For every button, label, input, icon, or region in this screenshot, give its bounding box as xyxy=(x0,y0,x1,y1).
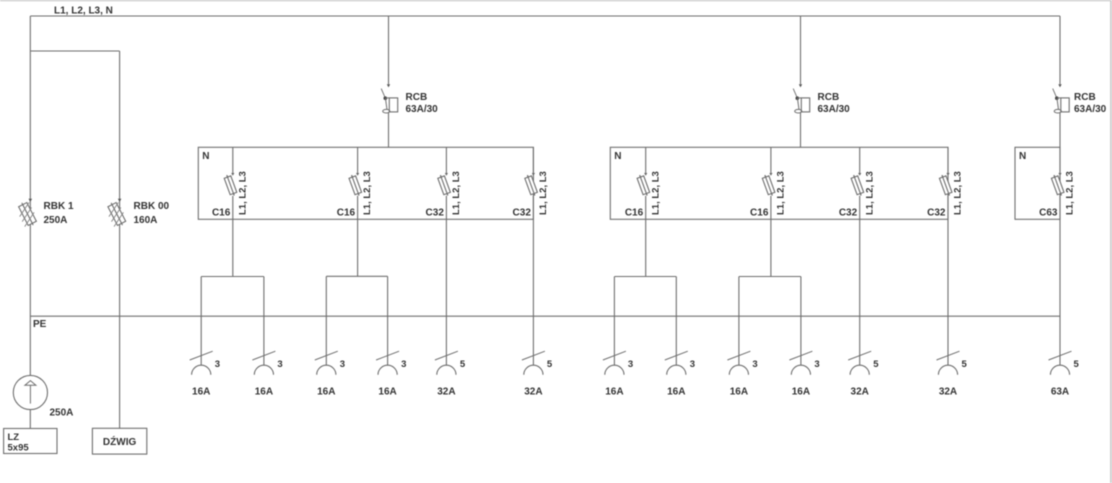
socket outlet X6 32A (5-wire) xyxy=(522,351,553,397)
socket outlet X5 32A (5-wire) xyxy=(435,351,466,397)
RCD breaker RCB2 xyxy=(793,84,810,113)
svg-text:3: 3 xyxy=(814,359,819,370)
svg-text:L1, L2, L3: L1, L2, L3 xyxy=(864,171,875,215)
label RCB2 63A/30 xyxy=(818,92,851,115)
svg-text:L1, L2, L3: L1, L2, L3 xyxy=(362,171,373,215)
label C32 #8 xyxy=(927,208,946,219)
distribution box 1 (N) xyxy=(198,147,533,219)
breaker C16 #5 xyxy=(636,173,650,197)
svg-text:63A: 63A xyxy=(1051,387,1069,398)
svg-text:3: 3 xyxy=(628,359,633,370)
svg-text:RCB: RCB xyxy=(1074,92,1096,103)
label C16 #2 xyxy=(337,208,356,219)
wire top bus L1,L2,L3,N xyxy=(30,15,1060,17)
svg-text:C16: C16 xyxy=(625,208,644,219)
svg-text:3: 3 xyxy=(215,359,220,370)
svg-text:RCB: RCB xyxy=(406,92,428,103)
label N box 1 (N) xyxy=(202,151,209,162)
svg-text:RBK 00: RBK 00 xyxy=(134,201,170,212)
socket outlet X12 32A (5-wire) xyxy=(937,351,968,397)
wire meter to LZ xyxy=(29,410,31,429)
label RBK 1 250A xyxy=(44,201,74,226)
socket outlet X13 63A (5-wire) xyxy=(1049,351,1080,397)
wire below breaker #5 xyxy=(645,196,647,277)
svg-text:L1, L2, L3: L1, L2, L3 xyxy=(953,171,964,215)
svg-text:250A: 250A xyxy=(50,408,74,419)
label RCB1 63A/30 xyxy=(406,92,439,115)
fuse-switch RBK 00 xyxy=(104,199,129,229)
wire below breaker #2 xyxy=(357,196,359,276)
svg-text:C32: C32 xyxy=(927,208,946,219)
wire drop above breaker C63 #9 xyxy=(1059,147,1061,173)
svg-text:RBK 1: RBK 1 xyxy=(44,201,74,212)
wire branch 4a xyxy=(738,277,740,366)
svg-text:63A/30: 63A/30 xyxy=(1074,104,1107,115)
svg-text:3: 3 xyxy=(277,359,282,370)
wire branch 2b xyxy=(387,276,389,365)
svg-text:3: 3 xyxy=(340,359,345,370)
distribution box 2 (N) xyxy=(610,147,948,219)
wire drop above breaker C32 #4 xyxy=(532,147,534,173)
svg-text:250A: 250A xyxy=(44,215,68,226)
wire PE bus xyxy=(30,315,1060,317)
wire below breaker #7 xyxy=(859,196,861,365)
socket outlet X11 32A (5-wire) xyxy=(848,351,879,397)
socket outlet X3 16A (3-wire) xyxy=(315,351,345,397)
svg-text:C16: C16 xyxy=(750,208,769,219)
label L1, L2, L3 of breaker #1 xyxy=(237,171,248,215)
svg-text:C32: C32 xyxy=(839,208,858,219)
svg-text:L1, L2, L3: L1, L2, L3 xyxy=(538,171,549,215)
svg-text:16A: 16A xyxy=(667,387,685,398)
svg-text:C32: C32 xyxy=(513,208,532,219)
svg-text:5: 5 xyxy=(962,359,968,370)
breaker C32 #7 xyxy=(850,173,864,197)
breaker C63 #9 xyxy=(1051,173,1065,197)
wire below breaker #1 xyxy=(232,196,234,277)
label L1, L2, L3 of breaker #6 xyxy=(776,171,787,215)
svg-text:L1, L2, L3: L1, L2, L3 xyxy=(650,171,661,215)
wire splitter bar 3 xyxy=(614,276,676,278)
svg-text:C32: C32 xyxy=(426,208,445,219)
svg-text:L1, L2, L3: L1, L2, L3 xyxy=(1065,171,1076,215)
cable tag LZ 5x95 xyxy=(4,429,57,454)
svg-text:N: N xyxy=(614,151,621,162)
wire drop above breaker C16 #2 xyxy=(357,147,359,173)
wire splitter bar 4 xyxy=(739,276,801,278)
socket outlet X10 16A (3-wire) xyxy=(789,351,819,397)
wire RCB3 to distribution box xyxy=(1059,112,1061,147)
label N box 2 (N) xyxy=(614,151,621,162)
label C32 #3 xyxy=(426,208,445,219)
svg-text:C16: C16 xyxy=(337,208,356,219)
svg-text:5x95: 5x95 xyxy=(8,442,30,453)
svg-text:5: 5 xyxy=(547,359,553,370)
label C16 #5 xyxy=(625,208,644,219)
wire branch 3a xyxy=(613,277,615,366)
wire RCB2 to distribution box xyxy=(800,112,802,147)
label C16 #1 xyxy=(212,208,231,219)
label C32 #7 xyxy=(839,208,858,219)
net label L1, L2, L3, N xyxy=(54,6,113,17)
wire drop above breaker C16 #6 xyxy=(770,147,772,173)
load box DZWIG xyxy=(92,428,146,454)
svg-text:5: 5 xyxy=(873,359,879,370)
wire drop above breaker C32 #3 xyxy=(445,147,447,173)
wire feeder to RCB3 xyxy=(1059,16,1061,84)
wire below breaker #9 xyxy=(1059,196,1061,365)
svg-text:3: 3 xyxy=(401,359,406,370)
svg-text:PE: PE xyxy=(33,319,47,330)
svg-text:5: 5 xyxy=(1074,359,1080,370)
svg-text:16A: 16A xyxy=(192,387,210,398)
wire feeder to RCB2 xyxy=(800,16,802,84)
label N box 3 (N) xyxy=(1019,151,1026,162)
scan edge right xyxy=(1110,0,1112,483)
wire drop above breaker C16 #5 xyxy=(645,147,647,173)
svg-text:16A: 16A xyxy=(317,387,335,398)
breaker C16 #6 xyxy=(762,173,776,197)
breaker C16 #1 xyxy=(224,173,238,197)
breaker C16 #2 xyxy=(348,173,362,197)
wire branch 2a xyxy=(325,276,327,365)
label C63 #9 xyxy=(1039,208,1058,219)
wire RCB1 to distribution box xyxy=(388,112,390,147)
svg-text:16A: 16A xyxy=(255,387,273,398)
wire below breaker #6 xyxy=(770,196,772,277)
svg-text:N: N xyxy=(1019,151,1026,162)
wire branch 3b xyxy=(675,277,677,366)
svg-text:N: N xyxy=(202,151,209,162)
svg-text:5: 5 xyxy=(460,359,466,370)
svg-text:16A: 16A xyxy=(730,387,748,398)
svg-text:32A: 32A xyxy=(524,387,542,398)
svg-text:32A: 32A xyxy=(939,387,957,398)
label RBK 00 160A xyxy=(134,201,170,226)
wire drop above breaker C32 #7 xyxy=(859,147,861,173)
svg-text:L1, L2, L3: L1, L2, L3 xyxy=(237,171,248,215)
wire feeder to RCB1 xyxy=(388,16,390,84)
wire below breaker #3 xyxy=(445,196,447,365)
wire branch 4b xyxy=(800,277,802,366)
svg-text:L1, L2, L3, N: L1, L2, L3, N xyxy=(54,6,113,17)
svg-text:DŹWIG: DŹWIG xyxy=(103,435,137,448)
wire drop above breaker C16 #1 xyxy=(232,147,234,173)
svg-text:160A: 160A xyxy=(134,215,158,226)
socket outlet X1 16A (3-wire) xyxy=(190,351,220,397)
label C16 #6 xyxy=(750,208,769,219)
RCD breaker RCB1 xyxy=(381,84,397,113)
svg-text:32A: 32A xyxy=(437,387,455,398)
svg-text:16A: 16A xyxy=(378,387,396,398)
socket outlet X8 16A (3-wire) xyxy=(665,351,695,397)
socket outlet X7 16A (3-wire) xyxy=(603,351,633,397)
label L1, L2, L3 of breaker #7 xyxy=(864,171,875,215)
wire drop above breaker C32 #8 xyxy=(947,147,949,173)
wire below breaker #8 xyxy=(947,196,949,365)
label RCB3 63A/30 xyxy=(1074,92,1107,115)
RCD breaker RCB3 xyxy=(1053,84,1070,113)
label L1, L2, L3 of breaker #9 xyxy=(1065,171,1076,215)
breaker C32 #8 xyxy=(939,173,953,197)
wire branch 1b xyxy=(263,277,265,366)
breaker C32 #3 xyxy=(437,173,451,197)
svg-text:16A: 16A xyxy=(605,387,623,398)
meter M1 (ammeter 250A) xyxy=(13,375,47,409)
breaker C32 #4 xyxy=(524,173,538,197)
label L1, L2, L3 of breaker #3 xyxy=(451,171,462,215)
wire below breaker #4 xyxy=(532,196,534,365)
label C32 #4 xyxy=(513,208,532,219)
socket outlet X4 16A (3-wire) xyxy=(376,351,406,397)
label L1, L2, L3 of breaker #2 xyxy=(362,171,373,215)
label L1, L2, L3 of breaker #8 xyxy=(953,171,964,215)
wire main feeder drop xyxy=(29,16,31,375)
net label PE xyxy=(33,319,47,330)
scan edge top xyxy=(0,0,1112,2)
svg-text:C63: C63 xyxy=(1039,208,1058,219)
wire branch to RBK 00 xyxy=(30,51,119,428)
svg-text:16A: 16A xyxy=(792,387,810,398)
distribution box 3 (N) xyxy=(1015,147,1060,219)
wire branch 1a xyxy=(200,277,202,366)
label L1, L2, L3 of breaker #5 xyxy=(650,171,661,215)
wire splitter bar 1 xyxy=(201,276,264,278)
svg-text:3: 3 xyxy=(690,359,695,370)
svg-text:63A/30: 63A/30 xyxy=(818,104,851,115)
svg-text:RCB: RCB xyxy=(818,92,840,103)
svg-text:L1, L2, L3: L1, L2, L3 xyxy=(776,171,787,215)
socket outlet X2 16A (3-wire) xyxy=(252,351,282,397)
svg-text:C16: C16 xyxy=(212,208,231,219)
svg-text:3: 3 xyxy=(752,359,757,370)
fuse-switch RBK 1 xyxy=(15,199,40,229)
label L1, L2, L3 of breaker #4 xyxy=(538,171,549,215)
svg-text:L1, L2, L3: L1, L2, L3 xyxy=(451,171,462,215)
svg-text:32A: 32A xyxy=(851,387,869,398)
socket outlet X9 16A (3-wire) xyxy=(727,351,757,397)
svg-text:63A/30: 63A/30 xyxy=(406,104,439,115)
label 250A meter xyxy=(50,408,74,419)
wire splitter bar 2 xyxy=(326,275,387,277)
